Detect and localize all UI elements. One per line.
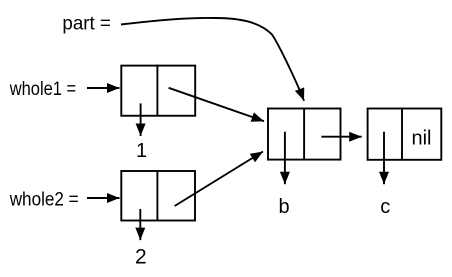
- cons cell C divider: [156, 170, 158, 221]
- wire: cell C cdr diagonal arrow to cell B: [175, 152, 263, 207]
- svg-text:1: 1: [136, 140, 147, 162]
- svg-text:b: b: [278, 196, 289, 218]
- svg-text:whole2 =: whole2 =: [9, 189, 79, 210]
- wire: cell A car down arrow to 1: [140, 103, 142, 136]
- cons cell C (whole2) box: [121, 171, 195, 221]
- wire: cell B car down arrow to b: [284, 132, 286, 185]
- wire: whole2 arrow to cons cell C: [87, 197, 120, 199]
- svg-text:part =: part =: [62, 13, 111, 34]
- cons cell A (whole1) box: [121, 66, 195, 116]
- wire: curved arrow from part= to node B cell: [121, 18, 304, 101]
- cons cell D (last) box: [368, 109, 442, 160]
- wire: cell C car down arrow to 2: [139, 209, 141, 240]
- cons cell A divider: [156, 65, 158, 116]
- wire: whole1 arrow to cons cell A: [87, 87, 120, 89]
- wire: cell D car down arrow to c: [383, 132, 385, 185]
- svg-text:whole1 =: whole1 =: [9, 79, 76, 100]
- cons cell B (shared part) box: [268, 109, 341, 160]
- cons cell B divider: [303, 108, 305, 160]
- wire: cell A cdr diagonal arrow to cell B: [169, 88, 264, 121]
- svg-text:2: 2: [135, 246, 147, 269]
- svg-text:nil: nil: [411, 127, 431, 149]
- cons cell D divider: [401, 108, 403, 160]
- wire: cell B cdr arrow to cell D: [321, 136, 361, 138]
- svg-text:c: c: [380, 196, 390, 218]
